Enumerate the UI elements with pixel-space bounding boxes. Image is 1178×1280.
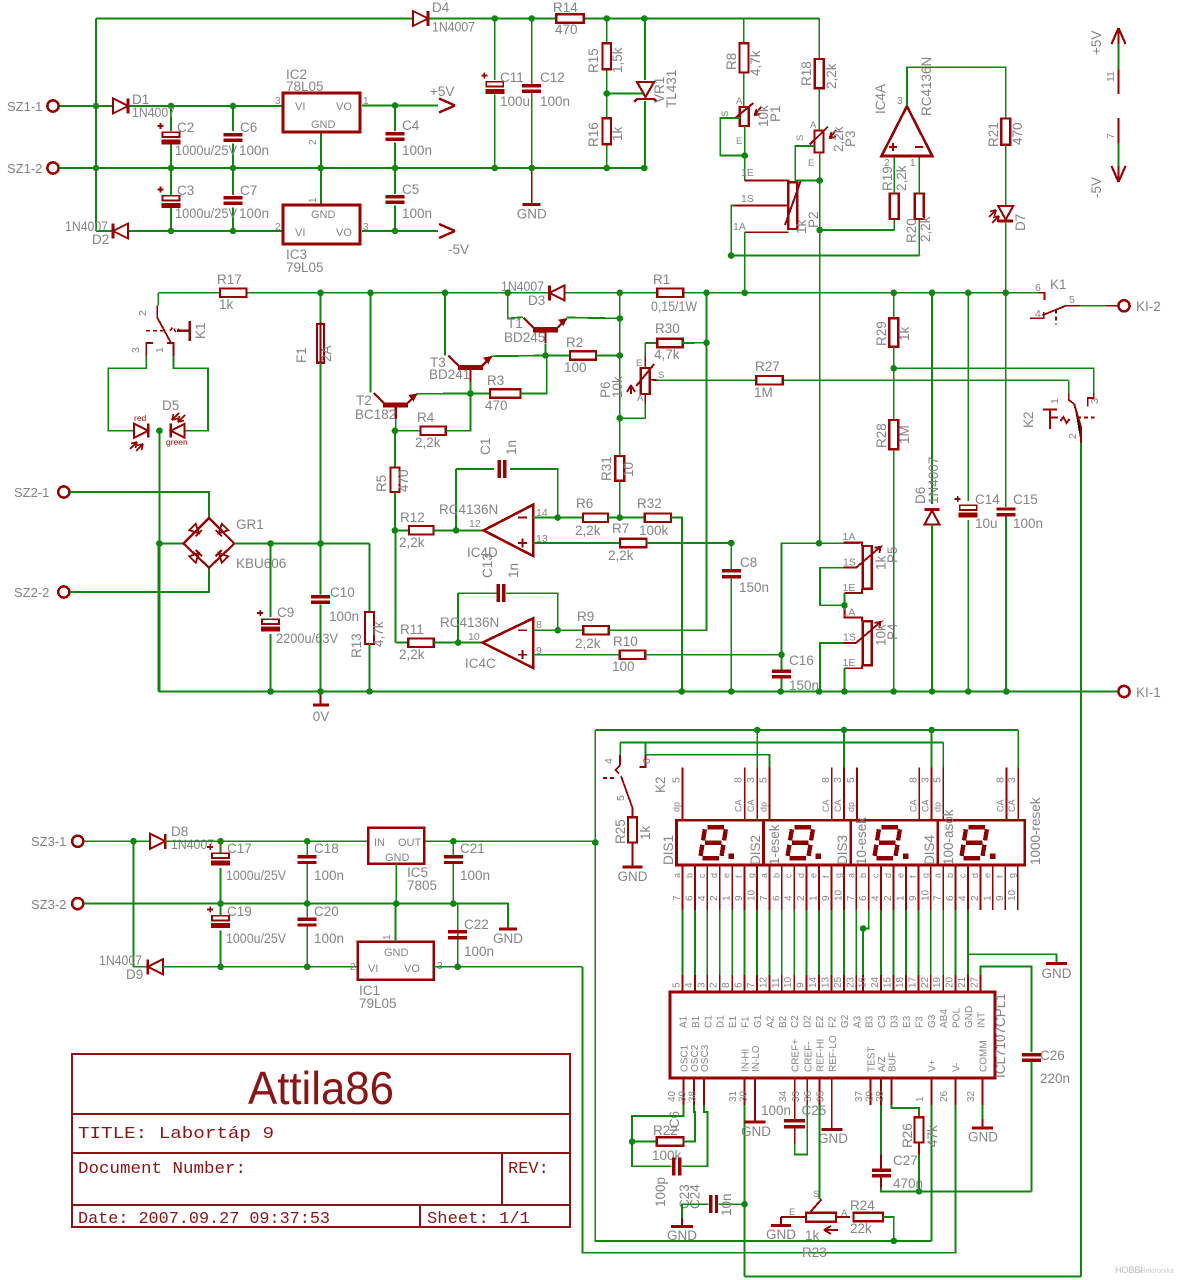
svg-text:c: c [871, 873, 881, 878]
svg-text:IC4C: IC4C [465, 656, 496, 671]
svg-text:32: 32 [966, 1090, 977, 1102]
svg-text:DIS3: DIS3 [835, 835, 850, 865]
svg-text:D2: D2 [803, 1015, 814, 1028]
svg-text:red: red [134, 413, 147, 423]
svg-text:R20: R20 [904, 218, 919, 243]
svg-text:REF-LO: REF-LO [828, 1035, 839, 1072]
svg-text:OSC1: OSC1 [680, 1044, 691, 1072]
svg-text:D3: D3 [528, 293, 545, 308]
svg-text:Date: 2007.09.27 09:37:53: Date: 2007.09.27 09:37:53 [78, 1210, 330, 1229]
svg-text:0,15/1W: 0,15/1W [651, 299, 697, 314]
svg-text:5: 5 [758, 777, 770, 783]
svg-text:79L05: 79L05 [359, 996, 397, 1011]
svg-text:C9: C9 [277, 605, 294, 620]
svg-text:c: c [958, 873, 968, 878]
svg-text:A3: A3 [852, 1015, 863, 1028]
svg-text:10n: 10n [719, 1193, 734, 1216]
svg-text:150n: 150n [789, 678, 819, 693]
svg-text:2: 2 [350, 962, 356, 973]
svg-text:33: 33 [791, 1090, 802, 1102]
svg-text:C27: C27 [893, 1153, 918, 1168]
svg-text:D2: D2 [92, 232, 109, 247]
svg-text:1: 1 [982, 895, 993, 901]
svg-text:E: E [808, 158, 814, 169]
svg-text:R13: R13 [349, 633, 364, 658]
svg-text:VO: VO [336, 101, 352, 113]
svg-text:100k: 100k [639, 523, 669, 538]
svg-text:E2: E2 [815, 1015, 826, 1028]
svg-text:470: 470 [396, 469, 411, 492]
svg-text:GND: GND [964, 1006, 975, 1028]
svg-text:BC182: BC182 [355, 407, 396, 422]
svg-text:C19: C19 [227, 904, 252, 919]
svg-text:VI: VI [295, 227, 305, 239]
svg-text:DIS1: DIS1 [661, 835, 676, 865]
svg-text:31: 31 [728, 1090, 739, 1102]
svg-text:2: 2 [884, 158, 890, 169]
svg-text:6: 6 [684, 895, 695, 901]
svg-text:2,2k: 2,2k [918, 216, 933, 242]
svg-text:2,2k: 2,2k [894, 165, 909, 191]
svg-text:IN-HI: IN-HI [741, 1049, 752, 1072]
svg-text:D1: D1 [716, 1015, 727, 1028]
svg-text:e: e [722, 873, 732, 878]
svg-text:2: 2 [275, 222, 281, 233]
svg-text:A: A [637, 393, 644, 404]
svg-text:10: 10 [747, 889, 758, 901]
svg-text:GND: GND [818, 1131, 848, 1146]
svg-text:G2: G2 [840, 1014, 851, 1028]
svg-text:7: 7 [746, 982, 757, 988]
svg-text:3: 3 [897, 96, 903, 107]
svg-text:1000u/25V: 1000u/25V [226, 931, 286, 946]
svg-text:100p: 100p [653, 1177, 668, 1207]
svg-text:1S: 1S [843, 557, 856, 569]
svg-text:100n: 100n [1013, 516, 1043, 531]
svg-text:G3: G3 [927, 1014, 938, 1028]
svg-text:1: 1 [308, 197, 319, 203]
svg-text:38: 38 [688, 1090, 699, 1102]
svg-text:1N4007: 1N4007 [171, 837, 214, 852]
svg-text:6: 6 [945, 895, 956, 901]
svg-text:R6: R6 [576, 496, 593, 511]
svg-text:e: e [982, 873, 992, 878]
svg-text:1N4007: 1N4007 [132, 105, 175, 120]
svg-text:INT: INT [976, 1012, 987, 1028]
svg-text:D7: D7 [1013, 214, 1028, 231]
svg-text:18: 18 [895, 976, 906, 988]
svg-text:3: 3 [832, 777, 844, 783]
svg-text:1E: 1E [843, 582, 856, 594]
svg-text:F2: F2 [828, 1016, 839, 1028]
svg-text:100n: 100n [314, 868, 344, 883]
svg-text:26: 26 [939, 1090, 950, 1102]
svg-text:R25: R25 [613, 819, 628, 844]
svg-text:R24: R24 [850, 1198, 875, 1213]
svg-text:4: 4 [958, 895, 969, 901]
svg-text:1N4007: 1N4007 [432, 20, 475, 35]
svg-text:b: b [945, 873, 955, 878]
svg-text:100: 100 [612, 659, 635, 674]
svg-text:5: 5 [931, 777, 943, 783]
svg-text:100n: 100n [460, 868, 490, 883]
svg-text:1: 1 [363, 96, 369, 107]
svg-text:4: 4 [784, 895, 795, 901]
svg-text:d: d [883, 873, 893, 878]
svg-text:15: 15 [883, 976, 894, 988]
svg-text:S: S [720, 111, 731, 117]
svg-text:green: green [166, 437, 188, 447]
svg-text:P3: P3 [843, 130, 858, 147]
svg-text:GND: GND [384, 947, 409, 959]
svg-text:b: b [684, 873, 694, 878]
svg-text:e: e [896, 873, 906, 878]
svg-text:e: e [809, 873, 819, 878]
svg-text:V-: V- [952, 1063, 963, 1072]
svg-text:1: 1 [382, 934, 393, 940]
svg-text:1: 1 [1049, 398, 1061, 404]
svg-text:C5: C5 [402, 182, 419, 197]
svg-text:8: 8 [994, 777, 1006, 783]
svg-text:9: 9 [995, 895, 1006, 901]
svg-text:6: 6 [858, 895, 869, 901]
svg-text:R16: R16 [586, 122, 601, 147]
svg-text:R22: R22 [653, 1123, 678, 1138]
svg-text:1E: 1E [741, 167, 754, 179]
svg-text:9: 9 [796, 982, 807, 988]
svg-text:14: 14 [808, 976, 819, 988]
svg-text:K2: K2 [1021, 411, 1036, 428]
svg-text:C22: C22 [464, 917, 489, 932]
svg-text:2: 2 [970, 895, 981, 901]
svg-text:d: d [970, 873, 980, 878]
svg-text:4: 4 [603, 758, 615, 764]
svg-text:3: 3 [130, 347, 142, 353]
svg-text:OSC3: OSC3 [700, 1044, 711, 1072]
svg-text:R9: R9 [577, 609, 594, 624]
svg-text:T1: T1 [507, 316, 523, 331]
svg-text:R5: R5 [374, 475, 389, 492]
svg-text:1S: 1S [741, 193, 754, 205]
svg-text:GND: GND [667, 1228, 697, 1243]
svg-text:GR1: GR1 [236, 517, 264, 532]
svg-text:7: 7 [1105, 133, 1117, 139]
svg-text:7: 7 [672, 895, 683, 901]
svg-text:B3: B3 [865, 1015, 876, 1028]
svg-text:34: 34 [778, 1090, 789, 1102]
svg-text:8: 8 [907, 777, 919, 783]
svg-text:A/Z: A/Z [877, 1056, 888, 1072]
svg-text:5: 5 [672, 982, 683, 988]
svg-text:12: 12 [758, 976, 769, 988]
svg-text:28: 28 [875, 1090, 886, 1102]
svg-text:10u: 10u [975, 516, 998, 531]
svg-text:E1: E1 [728, 1015, 739, 1028]
svg-text:1A: 1A [843, 607, 856, 619]
svg-text:BUF: BUF [888, 1052, 899, 1072]
svg-text:1k: 1k [638, 825, 653, 840]
svg-text:S: S [795, 135, 806, 141]
svg-text:100n: 100n [402, 143, 432, 158]
svg-text:SZ3-1: SZ3-1 [31, 834, 66, 849]
svg-text:E3: E3 [902, 1015, 913, 1028]
svg-text:100n: 100n [464, 944, 494, 959]
svg-text:R17: R17 [217, 272, 242, 287]
svg-text:8: 8 [820, 777, 832, 783]
svg-text:1: 1 [910, 158, 916, 169]
svg-text:47k: 47k [925, 1125, 940, 1147]
svg-text:CA: CA [995, 799, 1005, 812]
svg-text:10: 10 [468, 631, 480, 643]
svg-text:100u: 100u [500, 94, 530, 109]
svg-text:10: 10 [920, 889, 931, 901]
svg-text:C20: C20 [314, 904, 339, 919]
svg-text:1k: 1k [219, 297, 234, 312]
svg-text:C7: C7 [240, 183, 257, 198]
svg-text:E: E [789, 1207, 795, 1218]
svg-text:dp: dp [846, 802, 856, 812]
svg-text:1A: 1A [733, 221, 746, 233]
svg-text:1N4007: 1N4007 [926, 457, 941, 504]
svg-text:AB4: AB4 [939, 1009, 950, 1028]
svg-text:R31: R31 [599, 456, 614, 481]
svg-text:R18: R18 [799, 61, 814, 86]
svg-text:11: 11 [771, 977, 782, 988]
svg-text:2,2k: 2,2k [608, 548, 634, 563]
svg-text:POL: POL [952, 1008, 963, 1028]
svg-text:100n: 100n [402, 206, 432, 221]
svg-text:R23: R23 [802, 1245, 827, 1260]
svg-text:100k: 100k [652, 1148, 682, 1163]
svg-text:K2: K2 [653, 776, 668, 793]
svg-text:4,7k: 4,7k [654, 347, 680, 362]
svg-text:A1: A1 [679, 1015, 690, 1028]
svg-text:1: 1 [154, 347, 166, 353]
svg-text:C13: C13 [480, 553, 495, 578]
svg-text:7805: 7805 [407, 878, 437, 893]
svg-text:SZ1-2: SZ1-2 [7, 161, 42, 176]
svg-text:RC4136N: RC4136N [919, 57, 934, 116]
svg-text:1000u/25V: 1000u/25V [175, 206, 237, 221]
svg-text:F3: F3 [914, 1016, 925, 1028]
svg-text:C24: C24 [688, 1184, 703, 1209]
svg-text:SZ2-2: SZ2-2 [14, 585, 49, 600]
svg-text:4: 4 [697, 895, 708, 901]
svg-text:3: 3 [745, 777, 757, 783]
svg-text:B1: B1 [691, 1015, 702, 1028]
svg-text:150n: 150n [739, 580, 769, 595]
svg-text:1000u/25V: 1000u/25V [175, 143, 237, 158]
svg-text:1k: 1k [805, 1228, 820, 1243]
svg-text:1S: 1S [843, 632, 856, 644]
svg-text:+5V: +5V [1089, 31, 1104, 55]
svg-text:10: 10 [833, 889, 844, 901]
svg-text:CA: CA [833, 799, 843, 812]
svg-text:100n: 100n [540, 94, 570, 109]
svg-text:2200u/63V: 2200u/63V [276, 631, 338, 646]
svg-text:a: a [759, 873, 769, 878]
svg-text:VI: VI [368, 963, 378, 975]
svg-text:5: 5 [671, 777, 683, 783]
svg-text:8: 8 [733, 777, 745, 783]
svg-text:2,2k: 2,2k [575, 523, 601, 538]
svg-text:CA: CA [921, 799, 931, 812]
svg-text:TEST: TEST [867, 1046, 878, 1072]
svg-text:F1: F1 [741, 1016, 752, 1028]
svg-text:5: 5 [1069, 294, 1075, 306]
svg-text:3: 3 [275, 96, 281, 107]
svg-text:GND: GND [741, 1124, 771, 1139]
svg-text:S: S [813, 1189, 819, 1200]
svg-text:470: 470 [485, 398, 508, 413]
svg-text:VI: VI [295, 101, 305, 113]
svg-text:CA: CA [908, 799, 918, 812]
svg-text:21: 21 [957, 976, 968, 988]
svg-text:A2: A2 [765, 1015, 776, 1028]
svg-text:D3: D3 [890, 1015, 901, 1028]
svg-text:KI-1: KI-1 [1136, 685, 1161, 700]
svg-text:E: E [736, 136, 742, 147]
svg-text:8: 8 [536, 619, 542, 631]
svg-text:6: 6 [771, 895, 782, 901]
svg-text:4: 4 [871, 895, 882, 901]
svg-text:C12: C12 [540, 70, 565, 85]
svg-text:C16: C16 [789, 653, 814, 668]
svg-text:9: 9 [734, 895, 745, 901]
svg-text:1n: 1n [506, 563, 521, 578]
svg-text:1N4007: 1N4007 [99, 953, 142, 968]
svg-text:K1: K1 [193, 322, 208, 339]
svg-text:SZ3-2: SZ3-2 [31, 897, 66, 912]
svg-text:ICL7107CPL1: ICL7107CPL1 [993, 993, 1008, 1078]
svg-text:IN: IN [374, 837, 385, 849]
svg-text:GND: GND [493, 931, 523, 946]
svg-text:G1: G1 [753, 1014, 764, 1028]
svg-text:100n: 100n [239, 206, 269, 221]
svg-text:GND: GND [517, 207, 547, 222]
svg-text:10: 10 [621, 462, 636, 477]
svg-text:KI-2: KI-2 [1136, 299, 1161, 314]
svg-text:C10: C10 [330, 585, 355, 600]
svg-text:3: 3 [1089, 398, 1101, 404]
svg-text:R12: R12 [400, 510, 425, 525]
svg-text:2: 2 [796, 895, 807, 901]
svg-text:1n: 1n [504, 440, 519, 455]
svg-text:30: 30 [739, 1090, 750, 1102]
svg-text:c: c [784, 873, 794, 878]
svg-text:13: 13 [821, 976, 832, 988]
svg-text:HOBBI: HOBBI [1115, 1265, 1143, 1275]
svg-text:CA: CA [1007, 799, 1017, 812]
svg-text:g: g [1007, 873, 1017, 878]
svg-text:2: 2 [1067, 433, 1079, 439]
svg-text:d: d [796, 873, 806, 878]
svg-text:29: 29 [865, 1090, 876, 1102]
svg-text:C2: C2 [177, 120, 194, 135]
svg-text:C17: C17 [227, 841, 252, 856]
svg-text:2A: 2A [319, 345, 334, 362]
svg-text:R29: R29 [874, 321, 889, 346]
svg-text:6: 6 [734, 982, 745, 988]
svg-text:P1: P1 [768, 105, 783, 122]
svg-text:12: 12 [469, 518, 481, 530]
svg-text:g: g [747, 873, 757, 878]
svg-text:5: 5 [615, 795, 627, 801]
svg-text:g: g [920, 873, 930, 878]
svg-text:a: a [672, 873, 682, 878]
svg-text:BD241: BD241 [429, 367, 470, 382]
svg-text:C6: C6 [240, 120, 257, 135]
svg-text:1: 1 [896, 895, 907, 901]
svg-text:220n: 220n [1040, 1071, 1070, 1086]
svg-text:CA: CA [734, 799, 744, 812]
svg-text:C26: C26 [1040, 1048, 1065, 1063]
svg-text:4,7k: 4,7k [371, 621, 386, 647]
svg-text:R26: R26 [900, 1123, 915, 1148]
svg-text:CA: CA [821, 799, 831, 812]
svg-text:REV:: REV: [508, 1160, 549, 1179]
svg-text:36: 36 [803, 1090, 814, 1102]
svg-text:1M: 1M [754, 385, 773, 400]
svg-text:C2: C2 [790, 1015, 801, 1028]
svg-text:R7: R7 [612, 521, 629, 536]
svg-text:2: 2 [137, 310, 149, 316]
svg-text:2,2k: 2,2k [575, 636, 601, 651]
svg-text:+5V: +5V [430, 84, 454, 99]
svg-text:C11: C11 [500, 70, 524, 85]
svg-text:SZ2-1: SZ2-1 [14, 485, 49, 500]
svg-text:D5: D5 [162, 398, 179, 413]
svg-text:elektronika: elektronika [1140, 1268, 1174, 1275]
svg-text:9: 9 [821, 895, 832, 901]
svg-text:c: c [697, 873, 707, 878]
svg-text:C25: C25 [802, 1103, 827, 1118]
svg-text:DIS4: DIS4 [922, 834, 937, 865]
svg-text:35: 35 [815, 1090, 826, 1102]
svg-text:10: 10 [1007, 889, 1018, 901]
svg-text:79L05: 79L05 [286, 260, 324, 275]
svg-text:2: 2 [709, 895, 720, 901]
svg-text:7: 7 [846, 895, 857, 901]
svg-text:K1: K1 [1050, 277, 1067, 292]
svg-text:E: E [636, 358, 642, 369]
svg-text:OUT: OUT [398, 837, 422, 849]
svg-text:C21: C21 [460, 841, 485, 856]
svg-text:VO: VO [336, 227, 352, 239]
svg-text:GND: GND [1042, 966, 1072, 981]
svg-text:TL431: TL431 [664, 70, 679, 108]
svg-text:2,2k: 2,2k [824, 63, 839, 89]
svg-text:RC4136N: RC4136N [439, 502, 498, 517]
svg-text:GND: GND [385, 852, 410, 864]
svg-text:TITLE: Labortáp 9: TITLE: Labortáp 9 [78, 1125, 274, 1144]
svg-text:F1: F1 [294, 347, 309, 363]
svg-text:A: A [736, 96, 743, 107]
svg-text:1: 1 [915, 1096, 926, 1102]
svg-text:dp: dp [672, 802, 682, 812]
svg-text:GND: GND [618, 869, 648, 884]
svg-text:22k: 22k [850, 1221, 872, 1236]
svg-text:VO: VO [404, 963, 420, 975]
svg-text:100: 100 [564, 360, 587, 375]
svg-text:D4: D4 [432, 0, 450, 15]
svg-text:GND: GND [311, 209, 336, 221]
svg-text:100n: 100n [239, 143, 269, 158]
svg-text:6: 6 [1035, 282, 1041, 294]
svg-text:R3: R3 [487, 373, 504, 388]
svg-text:CA: CA [746, 799, 756, 812]
svg-text:IC4A: IC4A [873, 84, 888, 114]
